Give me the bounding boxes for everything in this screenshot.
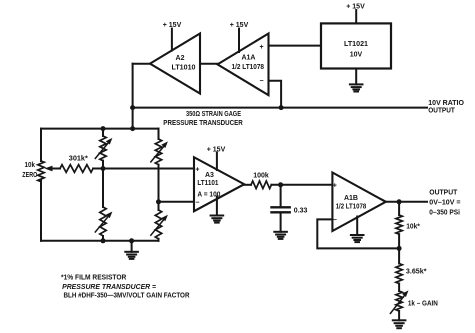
wire A3 ground stub (216, 197, 218, 216)
strain gage center top (100, 136, 106, 161)
voltage reference U3 LT1021 box (321, 23, 391, 68)
wire bridge ground stub (131, 241, 133, 252)
node filter cap (278, 182, 283, 187)
wire 3.65k to 1k pot (398, 284, 400, 292)
wire vertical from A2 output down to bridge top (132, 64, 134, 129)
svg-text:A3: A3 (205, 172, 214, 179)
wire bridge right tap to A3 minus input (159, 201, 195, 203)
wire A1B ground stub (356, 217, 358, 236)
wire output node down to 10k (398, 202, 400, 215)
bridge left rail wire upper (40, 129, 42, 161)
svg-text:PRESSURE TRANSDUCER: PRESSURE TRANSDUCER (163, 120, 243, 127)
op-amp A2 (150, 34, 200, 94)
wire 1k pot to ground (398, 311, 400, 320)
svg-text:301k*: 301k* (69, 155, 88, 162)
svg-text:LT1101: LT1101 (197, 180, 218, 187)
ground LT1021 (350, 84, 363, 91)
bridge center rail middle wire (102, 161, 104, 207)
svg-text:10k*: 10k* (406, 224, 420, 231)
ground bridge (125, 252, 138, 259)
svg-text:LT1021: LT1021 (344, 41, 368, 48)
resistor 10k feedback (396, 215, 402, 234)
bridge left rail wire lower (40, 180, 42, 241)
node bridge left tap (101, 166, 106, 171)
svg-text:*1% FILM RESISTOR: *1% FILM RESISTOR (61, 275, 126, 282)
svg-text:OUTPUT: OUTPUT (429, 190, 458, 197)
strain gage center bottom (100, 207, 106, 236)
svg-text:1k – GAIN: 1k – GAIN (408, 300, 438, 307)
wire LT1021 ground stub (355, 69, 357, 85)
svg-text:A2: A2 (176, 55, 185, 62)
capacitor 0.33 bottom stub (280, 214, 282, 232)
svg-text:10k: 10k (25, 162, 36, 169)
node bridge bottom center rail (101, 238, 106, 243)
svg-text:1/2 LT1078: 1/2 LT1078 (232, 64, 265, 71)
svg-text:0–350 PSi: 0–350 PSi (429, 210, 460, 217)
bridge right rail upper wire (158, 129, 160, 139)
svg-text:350Ω STRAIN GAGE: 350Ω STRAIN GAGE (186, 111, 241, 118)
ground capacitor (274, 232, 287, 239)
svg-text:+: + (333, 182, 337, 189)
bridge right rail lower wire (158, 239, 160, 241)
svg-text:A1A: A1A (241, 55, 255, 62)
node bridge top center rail (101, 126, 106, 131)
capacitor 0.33 top stub (280, 185, 282, 206)
ground 1k pot (393, 320, 406, 328)
bridge center rail lower wire (102, 236, 104, 241)
svg-text:0.33: 0.33 (294, 208, 308, 215)
capacitor 0.33 plates (272, 206, 290, 208)
bridge right rail middle wire (158, 165, 160, 210)
svg-text:+ 15V: + 15V (207, 147, 226, 154)
svg-text:+: + (259, 44, 263, 51)
wire A1A inverting input feedback (269, 81, 282, 108)
svg-text:1/2 LT1078: 1/2 LT1078 (336, 203, 367, 210)
wire 100k to A1B plus input (271, 184, 332, 186)
ground A1B (351, 235, 364, 242)
svg-text:10V: 10V (350, 52, 363, 59)
node bridge ground tap (129, 238, 134, 243)
svg-text:−: − (195, 199, 199, 206)
node feedback divider (397, 246, 402, 251)
svg-text:BLH #DHF-350—3MV/VOLT GAIN FAC: BLH #DHF-350—3MV/VOLT GAIN FACTOR (64, 292, 190, 299)
svg-text:PRESSURE TRANSDUCER =: PRESSURE TRANSDUCER = (62, 284, 156, 291)
wire +15V stub A1A (238, 29, 240, 52)
wire A1A output to A2 input (200, 63, 219, 65)
wire A1B output (386, 201, 427, 203)
wire A3 output (244, 184, 251, 186)
wire +15V stub A2 (171, 29, 173, 51)
bridge bottom edge wire (41, 240, 159, 242)
wire A1A non-inverting input to LT1021 (269, 45, 322, 47)
svg-text:+ 15V: + 15V (346, 4, 365, 11)
potentiometer 1k GAIN (396, 291, 402, 311)
strain gage right top (155, 139, 161, 165)
op-amp A1B (332, 173, 385, 232)
node A1A feedback on ratio line (279, 105, 284, 110)
wire +15V stub LT1021 (355, 10, 357, 23)
svg-text:10V RATIO: 10V RATIO (428, 100, 464, 107)
svg-text:+ 15V: + 15V (230, 22, 249, 29)
wire +15V stub A3 (216, 153, 218, 171)
svg-text:3.65k*: 3.65k* (406, 269, 427, 276)
wire 10V ratio line (133, 107, 427, 109)
potentiometer 10k ZERO (38, 161, 44, 182)
svg-text:−: − (259, 78, 263, 85)
bridge top edge wire (41, 128, 159, 130)
svg-text:0V–10V =: 0V–10V = (429, 200, 460, 207)
svg-text:A1B: A1B (344, 195, 358, 202)
svg-text:+ 15V: + 15V (163, 22, 182, 29)
node ratio line / A2 output (130, 105, 135, 110)
wire pot wiper arrow (49, 168, 60, 170)
resistor 301k (60, 165, 93, 173)
svg-text:+: + (195, 166, 199, 173)
svg-text:100k: 100k (253, 173, 269, 180)
resistor 3.65k (396, 264, 402, 284)
svg-text:A = 100: A = 100 (197, 192, 220, 199)
wire 10k to feedback node (398, 234, 400, 248)
node A1B output (397, 199, 402, 204)
strain gage right bottom (155, 210, 161, 239)
wire A2 output going left (133, 63, 151, 65)
op-amp A3 (194, 157, 244, 211)
ground A3 (211, 216, 224, 223)
wire feedback node down to 3.65k (398, 248, 400, 263)
wire 301k to A3 plus input (93, 168, 194, 170)
op-amp A1A (218, 34, 269, 96)
node bridge right tap (156, 199, 161, 204)
svg-text:−: − (333, 217, 337, 224)
svg-text:ZERO: ZERO (22, 172, 37, 179)
wire feedback to A1B minus input (317, 219, 399, 248)
junction node dots (101, 105, 402, 251)
resistor 100k (251, 181, 271, 189)
svg-text:LT1010: LT1010 (172, 65, 196, 72)
svg-text:OUTPUT: OUTPUT (428, 108, 455, 115)
bridge center rail upper wire (102, 129, 104, 136)
node bridge top / A2 output (130, 126, 135, 131)
